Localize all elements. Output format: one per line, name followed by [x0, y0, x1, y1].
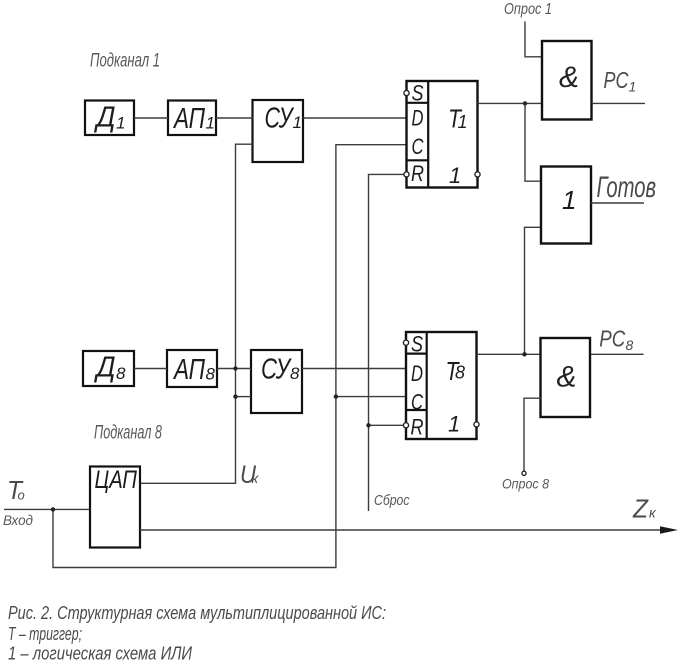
- svg-text:D: D: [412, 105, 424, 130]
- pin bubble T1 output 1: [475, 172, 480, 177]
- wire T8 R input: [369, 424, 404, 426]
- svg-text:1: 1: [293, 113, 302, 132]
- wire AND1 output РС1: [592, 102, 646, 104]
- svg-text:Рис. 2. Структурная схема муль: Рис. 2. Структурная схема мультиплициров…: [8, 603, 386, 623]
- node РС1 label: [604, 67, 637, 95]
- wire OR input from T1: [525, 103, 541, 181]
- svg-text:Z: Z: [632, 493, 649, 523]
- svg-text:S: S: [412, 81, 424, 106]
- block СУ1: [253, 100, 304, 162]
- wire Сброс reset bus: [369, 174, 404, 511]
- svg-text:Вход: Вход: [3, 512, 33, 528]
- junction dot on Uк bus at АП8 wire: [233, 366, 237, 370]
- pin bubble T1 R: [404, 172, 409, 177]
- node Uк label: [240, 461, 260, 489]
- node Zк label: [632, 493, 657, 523]
- svg-text:D: D: [411, 361, 423, 386]
- wire Опрос 1 input: [525, 21, 542, 56]
- svg-text:&: &: [559, 61, 579, 94]
- svg-text:1: 1: [448, 412, 460, 437]
- terminal circle Опрос 8: [522, 471, 526, 475]
- svg-text:8: 8: [290, 364, 300, 383]
- junction dot T1 output: [523, 101, 527, 105]
- wire СУ8 second input: [236, 396, 252, 398]
- svg-text:Д: Д: [94, 352, 116, 384]
- svg-text:Опрос 8: Опрос 8: [502, 476, 549, 492]
- svg-text:1: 1: [449, 163, 461, 188]
- svg-text:C: C: [411, 389, 423, 414]
- block Д8: [83, 351, 134, 386]
- wire СУ1-T1 D input: [303, 117, 407, 119]
- svg-text:АП: АП: [172, 103, 205, 135]
- svg-text:1: 1: [206, 114, 215, 133]
- svg-text:1: 1: [629, 79, 637, 95]
- svg-text:о: о: [18, 487, 25, 502]
- block АП1: [168, 101, 216, 136]
- svg-text:РС: РС: [604, 67, 629, 93]
- wire C clock bus vertical: [53, 145, 407, 568]
- svg-text:8: 8: [455, 363, 465, 383]
- gate AND8: [541, 338, 591, 417]
- svg-text:8: 8: [206, 365, 216, 384]
- junction dot on Вход wire: [51, 507, 55, 511]
- gate OR 1: [541, 167, 591, 244]
- svg-text:S: S: [411, 332, 423, 357]
- pin bubble T8 output 1: [474, 422, 479, 427]
- svg-text:Подканал 1: Подканал 1: [90, 51, 160, 72]
- wire Uк vertical bus: [140, 144, 253, 483]
- svg-text:СУ: СУ: [265, 103, 295, 135]
- svg-text:1 – логическая схема ИЛИ: 1 – логическая схема ИЛИ: [8, 644, 192, 664]
- svg-text:Подканал 8: Подканал 8: [94, 423, 162, 444]
- wire T8 output to AND8: [477, 353, 542, 355]
- pin bubble T8 R: [403, 423, 408, 428]
- gate AND1: [542, 41, 592, 120]
- svg-text:Готов: Готов: [597, 171, 657, 204]
- svg-text:1: 1: [458, 112, 468, 132]
- pin bubble T8 S: [403, 340, 408, 345]
- svg-text:C: C: [412, 134, 424, 159]
- svg-text:1: 1: [116, 114, 125, 133]
- wire Д1-АП1: [134, 117, 168, 119]
- svg-text:АП: АП: [172, 354, 205, 386]
- svg-text:8: 8: [116, 364, 126, 383]
- svg-text:Сброс: Сброс: [374, 492, 410, 509]
- junction dot on Сброс bus at T8 R input: [366, 423, 370, 427]
- junction dot on Uк bus at СУ8 input: [233, 394, 237, 398]
- svg-text:R: R: [411, 415, 424, 440]
- svg-text:СУ: СУ: [261, 354, 292, 386]
- wire T1 output to AND1: [478, 102, 543, 104]
- wire Опрос 8 input: [524, 398, 541, 471]
- wire T8 C input: [336, 396, 406, 398]
- block ЦАП: [90, 466, 140, 548]
- wire Zк output with arrow: [140, 529, 662, 531]
- wire AND8 output РС8: [591, 353, 644, 355]
- node РС8 label: [599, 326, 633, 354]
- wire АП8-СУ8: [217, 368, 251, 370]
- wire OR output Готов: [591, 202, 644, 204]
- trigger T8: [406, 332, 477, 440]
- pin bubble T1 S: [404, 90, 409, 95]
- svg-text:Д: Д: [94, 102, 116, 134]
- wire Д8-АП8: [134, 368, 167, 370]
- svg-text:1: 1: [562, 185, 576, 215]
- node То label: [7, 475, 25, 505]
- trigger T1: [407, 81, 478, 189]
- wire OR input from T8: [525, 227, 542, 354]
- svg-text:&: &: [557, 361, 577, 394]
- svg-text:R: R: [411, 161, 424, 186]
- wire АП1-СУ1: [216, 117, 253, 119]
- junction dot T8 output: [522, 352, 526, 356]
- block Д1: [85, 101, 134, 136]
- junction dot on C bus at T8 C input: [334, 394, 338, 398]
- wire Вход input: [4, 508, 90, 510]
- block СУ8: [251, 350, 302, 413]
- svg-text:РС: РС: [599, 326, 625, 352]
- svg-text:8: 8: [626, 337, 634, 353]
- wire СУ8-T8 D input: [302, 368, 406, 370]
- block АП8: [167, 350, 217, 387]
- svg-text:Т – триггер;: Т – триггер;: [8, 624, 82, 644]
- svg-text:ЦАП: ЦАП: [95, 466, 138, 494]
- svg-text:Опрос 1: Опрос 1: [504, 1, 552, 18]
